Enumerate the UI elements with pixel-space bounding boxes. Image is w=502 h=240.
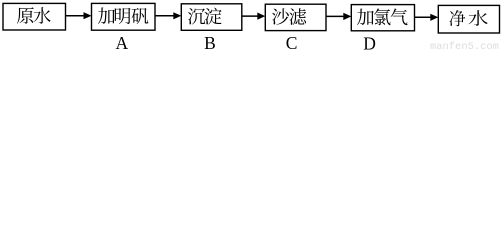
label text "沉淀" in box3 <box>188 8 222 25</box>
label text "沙滤" in box4 <box>272 8 306 25</box>
arrow 2 connecting box2 to box3 <box>155 12 181 19</box>
label text "净水" in box6 <box>449 10 487 26</box>
arrow 4 connecting box4 to box5 <box>326 13 351 20</box>
svg-text:B: B <box>204 33 216 52</box>
label text "加明矾" in box2 <box>98 7 148 24</box>
process box box6 "净水" <box>438 5 499 33</box>
svg-text:C: C <box>286 33 298 52</box>
label text "原水" in box1 <box>17 7 51 24</box>
process box box2 "加明矾" <box>92 3 156 30</box>
process box box4 "沙滤" <box>265 4 326 30</box>
label text "加氯气" in box5 <box>357 8 408 25</box>
svg-text:A: A <box>115 33 128 52</box>
arrow 5 connecting box5 to box6 <box>415 14 439 21</box>
arrow 3 connecting box3 to box4 <box>242 13 265 20</box>
process box box3 "沉淀" <box>181 4 242 31</box>
process box box1 "原水" <box>3 3 66 30</box>
arrow 1 connecting box1 to box2 <box>66 12 92 19</box>
process box box5 "加氯气" <box>351 5 414 31</box>
svg-text:D: D <box>363 33 376 52</box>
svg-text:manfen5.com: manfen5.com <box>430 41 499 52</box>
